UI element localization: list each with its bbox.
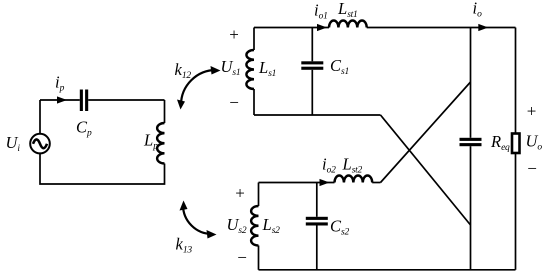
svg-text:−: −	[237, 248, 247, 267]
svg-text:+: +	[527, 102, 537, 121]
svg-text:Ui: Ui	[6, 133, 21, 154]
svg-text:−: −	[229, 93, 239, 112]
svg-text:Lp: Lp	[143, 131, 158, 152]
svg-text:Lst1: Lst1	[337, 0, 358, 20]
svg-text:+: +	[229, 25, 239, 44]
svg-text:Lst2: Lst2	[342, 155, 363, 176]
svg-text:−: −	[527, 159, 537, 178]
svg-text:Cs2: Cs2	[330, 217, 349, 238]
svg-text:k12: k12	[175, 60, 192, 81]
svg-text:Ls1: Ls1	[258, 58, 276, 79]
svg-text:Ls2: Ls2	[262, 215, 281, 236]
svg-text:io2: io2	[322, 155, 336, 176]
svg-text:+: +	[235, 184, 245, 203]
svg-text:io1: io1	[314, 0, 328, 21]
svg-text:Cs1: Cs1	[330, 56, 349, 77]
svg-text:Uo: Uo	[526, 132, 543, 153]
svg-text:ip: ip	[55, 73, 65, 94]
svg-text:Req: Req	[490, 132, 510, 153]
svg-text:k13: k13	[176, 235, 193, 256]
svg-text:Us2: Us2	[227, 215, 247, 236]
svg-text:Cp: Cp	[76, 118, 92, 139]
svg-text:io: io	[473, 0, 483, 20]
svg-text:Us1: Us1	[221, 57, 241, 78]
